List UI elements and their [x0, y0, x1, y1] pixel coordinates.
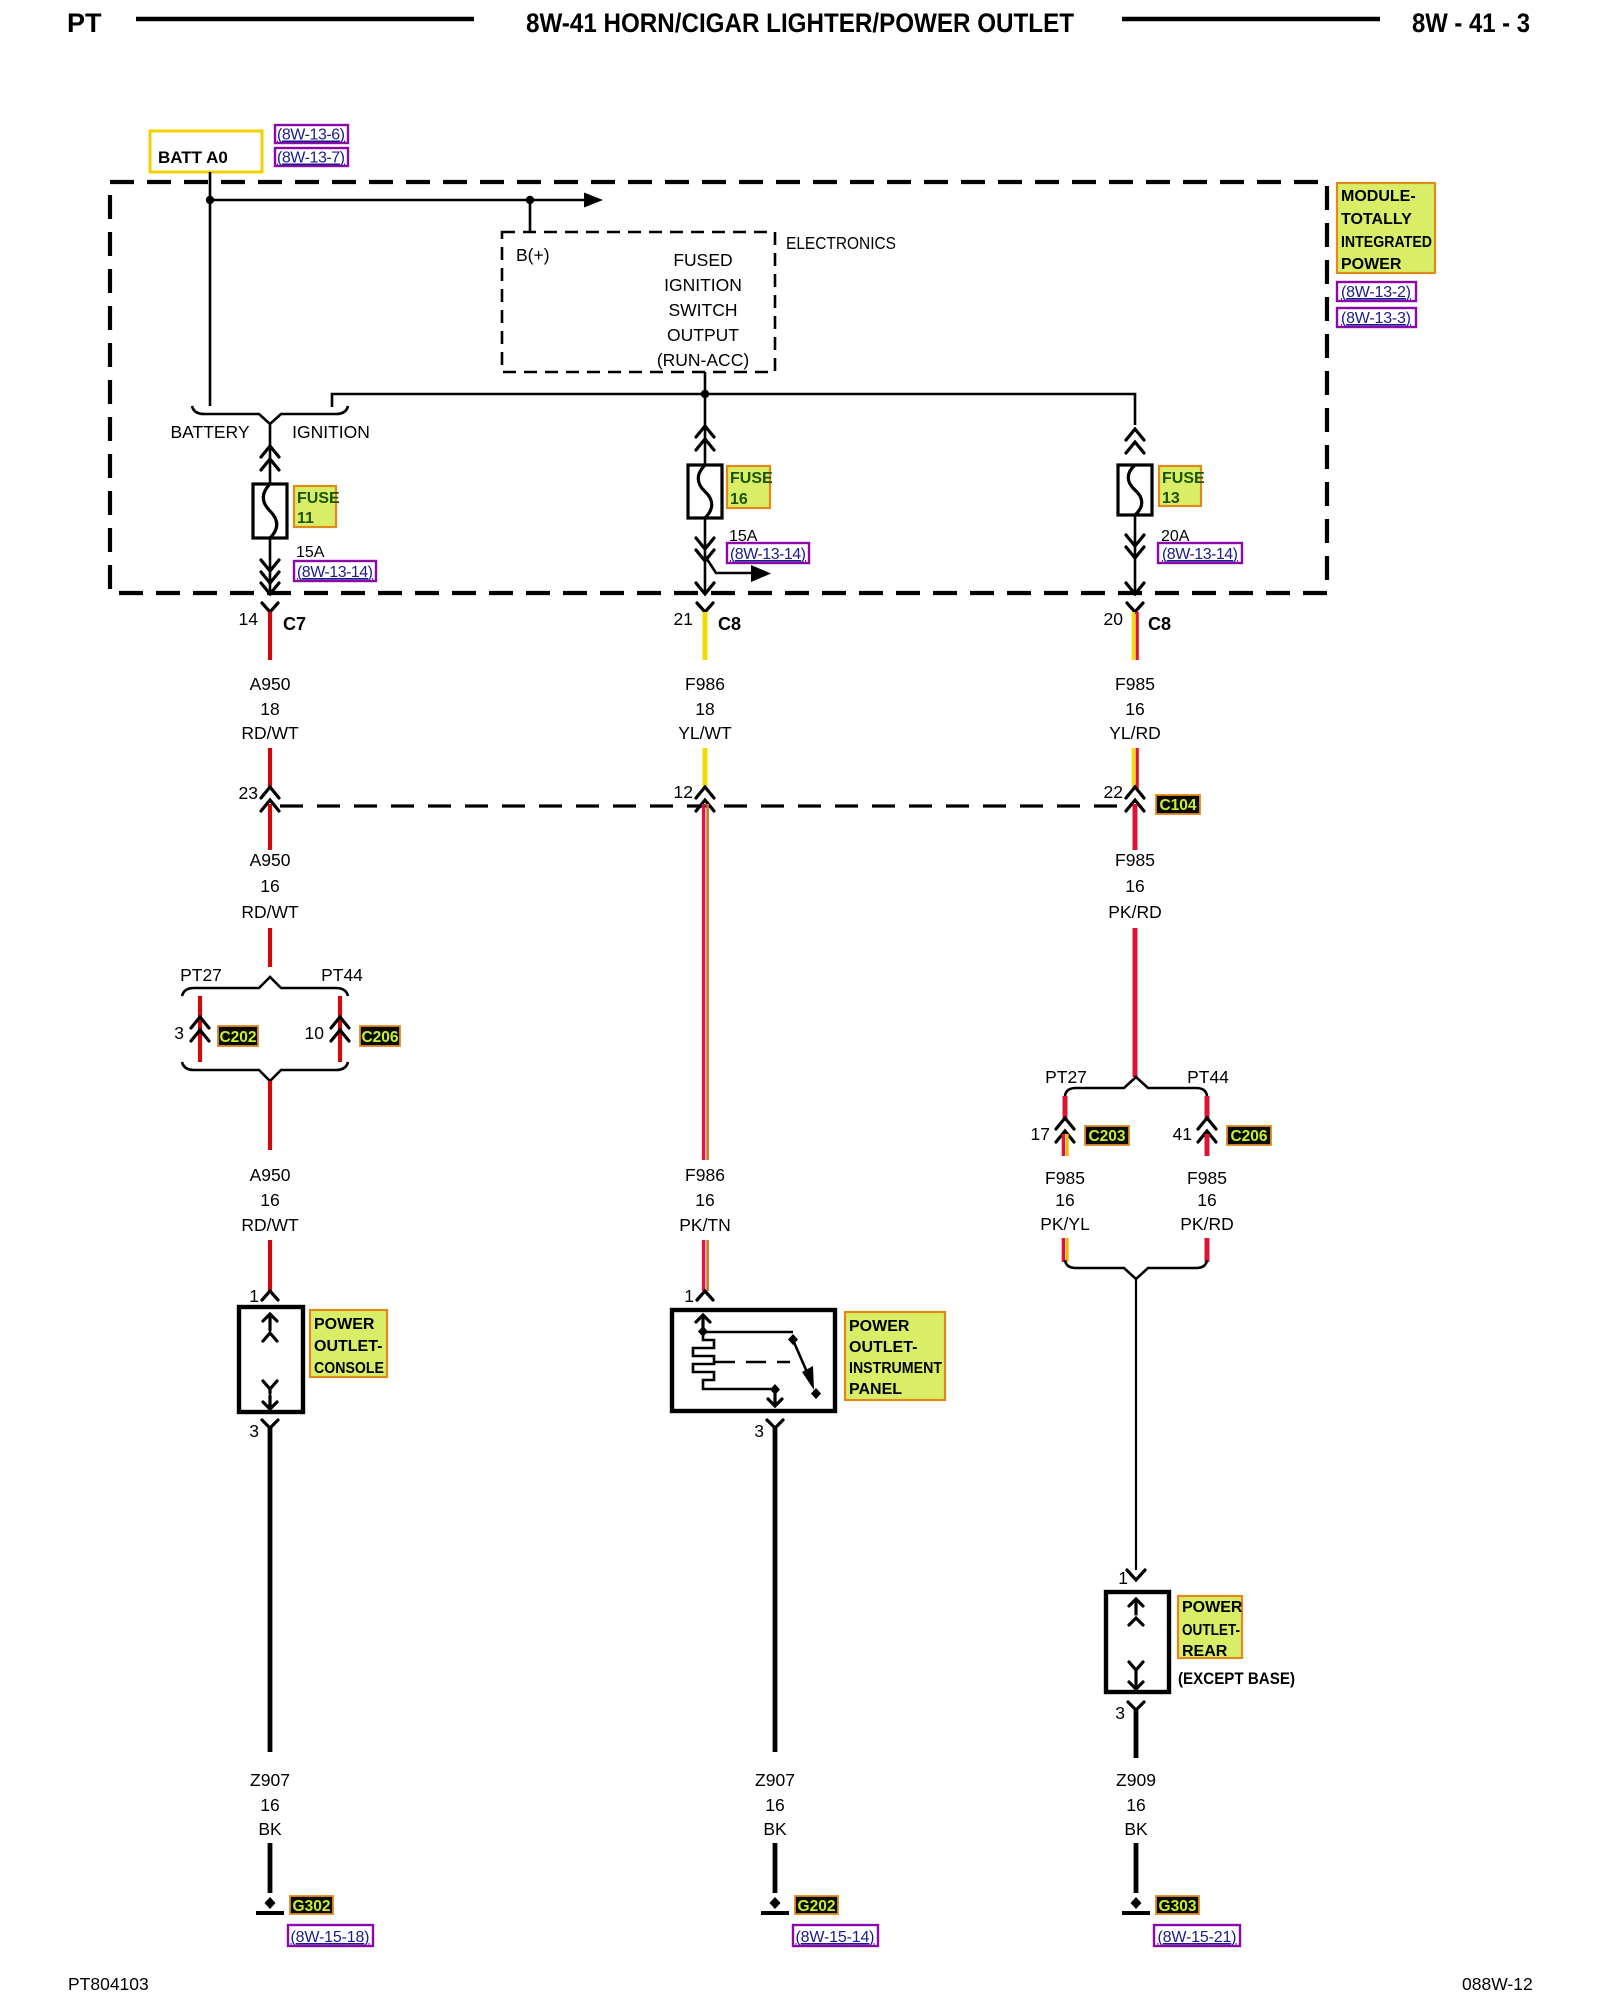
- svg-text:16: 16: [260, 1190, 279, 1210]
- svg-text:IGNITION: IGNITION: [664, 275, 742, 295]
- svg-text:B(+): B(+): [516, 245, 550, 265]
- svg-text:A950: A950: [250, 674, 291, 694]
- svg-text:INSTRUMENT: INSTRUMENT: [849, 1360, 942, 1377]
- svg-text:(EXCEPT BASE): (EXCEPT BASE): [1178, 1669, 1295, 1688]
- label POWER OUTLET-REAR: [1178, 1596, 1242, 1658]
- svg-text:8W - 41 - 3: 8W - 41 - 3: [1412, 8, 1530, 38]
- link 8W-13-2: [1337, 282, 1416, 301]
- splice brace to PT27/PT44: [1065, 1077, 1207, 1096]
- wire branch PT44: [338, 996, 342, 1062]
- svg-text:16: 16: [1197, 1190, 1216, 1210]
- link 8W-15-14: [793, 1925, 878, 1946]
- connector chevrons above fuse 11: [261, 446, 279, 470]
- wire F986 18 YL/WT: [703, 612, 708, 660]
- svg-text:POWER: POWER: [1182, 1599, 1243, 1616]
- svg-text:POWER: POWER: [849, 1318, 910, 1335]
- svg-text:11: 11: [297, 510, 314, 527]
- svg-text:12: 12: [674, 782, 693, 802]
- svg-text:PT44: PT44: [1187, 1067, 1229, 1087]
- svg-text:(8W-13-7): (8W-13-7): [277, 150, 345, 167]
- svg-text:16: 16: [1055, 1190, 1074, 1210]
- svg-text:(8W-13-6): (8W-13-6): [277, 127, 345, 144]
- svg-text:(8W-13-14): (8W-13-14): [1162, 546, 1238, 563]
- link 8W-13-6: [275, 125, 348, 143]
- chevrons fuse 11 output: [261, 560, 279, 594]
- power outlet - instrument panel (cigar lighter): [672, 1310, 835, 1411]
- wire F985 16 YL/RD: [1132, 612, 1135, 660]
- svg-text:PK/RD: PK/RD: [1180, 1214, 1233, 1234]
- link 8W-13-7: [275, 148, 348, 166]
- chevrons fuse 16 output: [696, 538, 714, 594]
- junction at battery feed: [206, 196, 214, 204]
- svg-text:C104: C104: [1159, 797, 1196, 814]
- svg-text:PT27: PT27: [180, 965, 222, 985]
- svg-text:RD/WT: RD/WT: [241, 902, 299, 922]
- link 8W-13-14: [1158, 543, 1242, 563]
- svg-text:16: 16: [1125, 876, 1144, 896]
- svg-text:16: 16: [730, 491, 748, 508]
- wire fuse 13 output: [1134, 515, 1137, 592]
- svg-text:1: 1: [249, 1286, 259, 1306]
- svg-text:F985: F985: [1115, 674, 1155, 694]
- header rule left: [136, 17, 474, 22]
- dashed connector line C104: [280, 804, 1122, 807]
- svg-text:17: 17: [1031, 1124, 1050, 1144]
- svg-text:C203: C203: [1088, 1128, 1125, 1145]
- svg-text:PT804103: PT804103: [68, 1974, 149, 1994]
- label POWER OUTLET-INSTRUMENT PANEL: [845, 1312, 945, 1400]
- connector C206 pin 10: [331, 1017, 349, 1041]
- heating element: [693, 1332, 775, 1389]
- svg-text:3: 3: [174, 1023, 184, 1043]
- svg-text:FUSED: FUSED: [673, 250, 732, 270]
- switch blade: [788, 1334, 798, 1345]
- merge brace below C202/C206: [182, 1062, 348, 1081]
- wire merged feed: [269, 424, 272, 484]
- svg-text:F985: F985: [1045, 1168, 1085, 1188]
- wire fuse 11 output: [269, 538, 272, 592]
- svg-text:088W-12: 088W-12: [1462, 1974, 1533, 1994]
- svg-text:PK/RD: PK/RD: [1108, 902, 1161, 922]
- svg-text:Z907: Z907: [250, 1770, 290, 1790]
- svg-text:PK/TN: PK/TN: [679, 1215, 731, 1235]
- svg-text:F986: F986: [685, 674, 725, 694]
- fuse 13: [1118, 465, 1152, 515]
- svg-text:POWER: POWER: [314, 1316, 375, 1333]
- svg-text:(8W-15-14): (8W-15-14): [796, 1929, 875, 1946]
- svg-text:FUSE: FUSE: [297, 490, 340, 507]
- svg-text:G302: G302: [293, 1898, 331, 1915]
- wire A950 18 RD/WT: [268, 612, 272, 660]
- svg-text:F985: F985: [1115, 850, 1155, 870]
- svg-text:C7: C7: [283, 614, 306, 634]
- svg-text:FUSE: FUSE: [1162, 470, 1205, 487]
- svg-text:Z909: Z909: [1116, 1770, 1156, 1790]
- junction at B+ drop: [526, 196, 534, 204]
- wire fuse 16 output: [704, 518, 707, 592]
- svg-text:(8W-15-18): (8W-15-18): [291, 1929, 370, 1946]
- connector C202 pin 3: [191, 1017, 209, 1041]
- svg-text:(RUN-ACC): (RUN-ACC): [657, 350, 749, 370]
- connector pin 1 power outlet instrument panel: [697, 1291, 713, 1300]
- wire A950 16 RD/WT to outlet: [268, 1081, 272, 1150]
- connector C206 pin 41: [1198, 1118, 1216, 1142]
- svg-text:(8W-13-14): (8W-13-14): [297, 564, 373, 581]
- link 8W-15-18: [288, 1925, 373, 1946]
- svg-text:(8W-13-2): (8W-13-2): [1341, 284, 1411, 301]
- svg-text:20: 20: [1104, 609, 1124, 629]
- splice brace to PT27/PT44: [182, 977, 348, 996]
- svg-text:RD/WT: RD/WT: [241, 723, 299, 743]
- power outlet - console: [239, 1307, 303, 1412]
- svg-text:TOTALLY: TOTALLY: [1341, 211, 1412, 228]
- connector pin 3 instrument panel outlet: [767, 1420, 783, 1428]
- svg-text:16: 16: [260, 876, 279, 896]
- svg-text:PK/YL: PK/YL: [1040, 1214, 1090, 1234]
- wire battery feed from BATT A0: [209, 172, 212, 406]
- wire F985 16 PK/RD: [1133, 804, 1138, 850]
- wire to rear outlet: [1135, 1279, 1137, 1570]
- svg-text:POWER: POWER: [1341, 256, 1402, 273]
- svg-text:C206: C206: [1230, 1128, 1267, 1145]
- svg-text:OUTLET-: OUTLET-: [314, 1338, 382, 1355]
- wire branch PT44: [1205, 1096, 1210, 1120]
- svg-text:OUTLET-: OUTLET-: [1182, 1622, 1240, 1639]
- wire Z909 16 BK ground: [1134, 1710, 1139, 1758]
- svg-text:IGNITION: IGNITION: [292, 422, 370, 442]
- svg-text:(8W-15-21): (8W-15-21): [1158, 1929, 1237, 1946]
- svg-text:A950: A950: [250, 1165, 291, 1185]
- outlet return arrow: [768, 1392, 782, 1406]
- connector pin 1 power outlet rear: [1127, 1570, 1145, 1580]
- svg-text:BK: BK: [763, 1819, 787, 1839]
- ground G302: [265, 1897, 276, 1909]
- fuse 11: [253, 484, 287, 538]
- svg-text:41: 41: [1173, 1124, 1192, 1144]
- svg-text:RD/WT: RD/WT: [241, 1215, 299, 1235]
- svg-text:OUTLET-: OUTLET-: [849, 1339, 917, 1356]
- svg-text:16: 16: [1125, 699, 1144, 719]
- svg-text:C8: C8: [1148, 614, 1171, 634]
- fuse 16: [688, 465, 722, 518]
- connector pin 3 rear outlet: [1128, 1702, 1144, 1710]
- svg-text:15A: 15A: [296, 544, 325, 561]
- wire from electronics output: [704, 372, 707, 394]
- svg-text:18: 18: [695, 699, 714, 719]
- wire branch PT27: [198, 996, 202, 1062]
- svg-text:14: 14: [239, 609, 259, 629]
- label FUSE 11: [294, 486, 336, 527]
- svg-text:ELECTRONICS: ELECTRONICS: [786, 233, 896, 253]
- svg-text:BATT A0: BATT A0: [158, 148, 228, 167]
- svg-text:G202: G202: [798, 1898, 836, 1915]
- connector pin 3 console outlet: [262, 1420, 278, 1428]
- svg-text:C206: C206: [361, 1029, 398, 1046]
- label MODULE-TOTALLY INTEGRATED POWER: [1337, 183, 1435, 273]
- electronics module dashed box: [502, 232, 775, 372]
- connector C7 pin 14: [262, 603, 278, 612]
- svg-text:C202: C202: [219, 1029, 256, 1046]
- connector C203 pin 17: [1056, 1118, 1074, 1142]
- merge brace below C203/C206: [1065, 1260, 1207, 1279]
- connector chevrons above fuse 13: [1126, 429, 1144, 453]
- wire F985 16 PK/RD stub: [1205, 1134, 1210, 1156]
- svg-text:Z907: Z907: [755, 1770, 795, 1790]
- connector C104 pin 22: [1126, 787, 1144, 811]
- wire A950 16 RD/WT: [268, 804, 272, 850]
- svg-text:(8W-13-14): (8W-13-14): [730, 546, 806, 563]
- label POWER OUTLET-CONSOLE: [310, 1310, 387, 1377]
- svg-text:(8W-13-3): (8W-13-3): [1341, 310, 1411, 327]
- svg-text:PT44: PT44: [321, 965, 363, 985]
- svg-text:16: 16: [260, 1795, 279, 1815]
- label FUSE 16: [727, 466, 770, 508]
- header rule right: [1122, 17, 1380, 22]
- svg-text:A950: A950: [250, 850, 291, 870]
- connector C104 pin 12: [696, 787, 714, 811]
- module - totally integrated power (TIPM) dashed boundary: [110, 182, 1327, 593]
- svg-text:13: 13: [1162, 490, 1180, 507]
- svg-text:BK: BK: [258, 1819, 282, 1839]
- svg-text:16: 16: [765, 1795, 784, 1815]
- ground G202: [770, 1897, 781, 1909]
- svg-text:10: 10: [305, 1023, 325, 1043]
- svg-text:22: 22: [1104, 782, 1123, 802]
- splice brace battery/ignition: [192, 406, 348, 424]
- svg-text:3: 3: [249, 1421, 259, 1441]
- svg-text:1: 1: [684, 1286, 694, 1306]
- svg-text:YL/RD: YL/RD: [1109, 723, 1161, 743]
- svg-text:REAR: REAR: [1182, 1643, 1228, 1660]
- ground G303: [1131, 1897, 1142, 1909]
- wire F986 16 PK/TN: [702, 804, 705, 1160]
- junction ignition bus: [701, 390, 709, 398]
- chevrons fuse 13 output: [1126, 535, 1144, 594]
- svg-text:16: 16: [695, 1190, 714, 1210]
- svg-text:8W-41 HORN/CIGAR LIGHTER/POWER: 8W-41 HORN/CIGAR LIGHTER/POWER OUTLET: [526, 8, 1074, 38]
- svg-text:OUTPUT: OUTPUT: [667, 325, 739, 345]
- svg-text:FUSE: FUSE: [730, 470, 773, 487]
- link 8W-13-14: [727, 543, 809, 563]
- wire ignition bus: [332, 394, 1135, 425]
- svg-text:18: 18: [260, 699, 279, 719]
- svg-text:3: 3: [754, 1421, 764, 1441]
- svg-text:PANEL: PANEL: [849, 1381, 902, 1398]
- svg-text:PT27: PT27: [1045, 1067, 1087, 1087]
- svg-text:CONSOLE: CONSOLE: [314, 1360, 384, 1377]
- svg-text:INTEGRATED: INTEGRATED: [1341, 234, 1432, 251]
- svg-text:YL/WT: YL/WT: [678, 723, 732, 743]
- svg-text:1: 1: [1118, 1568, 1128, 1588]
- svg-text:23: 23: [239, 783, 258, 803]
- svg-text:3: 3: [1115, 1703, 1125, 1723]
- connector chevrons above fuse 16: [696, 426, 714, 450]
- switch linkage dashed: [715, 1361, 790, 1364]
- connector C8 pin 21: [697, 603, 713, 612]
- power outlet - rear: [1106, 1592, 1169, 1692]
- connector pin 1 power outlet console: [262, 1291, 278, 1300]
- wire bus to electronics: [210, 199, 584, 202]
- connector C104-like splice pin 23: [261, 787, 279, 811]
- svg-text:BATTERY: BATTERY: [170, 422, 249, 442]
- wire Z907 16 BK ground: [268, 1428, 273, 1752]
- link 8W-13-14: [294, 561, 376, 581]
- wire branch PT27: [1063, 1096, 1068, 1120]
- svg-text:PT: PT: [67, 8, 102, 38]
- svg-text:F985: F985: [1187, 1168, 1227, 1188]
- svg-text:MODULE-: MODULE-: [1341, 188, 1416, 205]
- svg-text:21: 21: [674, 609, 693, 629]
- wire drop to B+ pin: [529, 200, 532, 232]
- svg-text:C8: C8: [718, 614, 741, 634]
- arrow continuing bus: [584, 193, 603, 208]
- connector C8 pin 20: [1127, 603, 1143, 612]
- label FUSE 13: [1159, 466, 1201, 506]
- link 8W-13-3: [1337, 308, 1416, 327]
- svg-text:F986: F986: [685, 1165, 725, 1185]
- fuse block BATT A0: [150, 131, 262, 172]
- svg-text:16: 16: [1126, 1795, 1145, 1815]
- wire F985 16 PK/YL stub: [1062, 1134, 1065, 1156]
- link 8W-15-21: [1154, 1925, 1240, 1946]
- svg-text:G303: G303: [1159, 1898, 1197, 1915]
- wire col2 drop to fuse: [704, 394, 707, 465]
- svg-text:BK: BK: [1124, 1819, 1148, 1839]
- wire Z907 16 BK ground: [773, 1428, 778, 1752]
- svg-text:SWITCH: SWITCH: [668, 300, 737, 320]
- branch arrow to other circuits: [705, 556, 752, 573]
